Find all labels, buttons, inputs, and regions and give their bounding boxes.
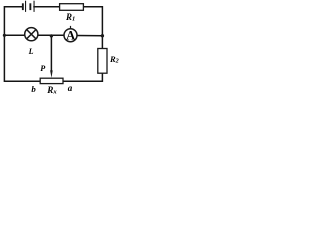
- resistor R1 body: [60, 4, 84, 11]
- junction node at left wall: [3, 34, 6, 37]
- battery cell 2 short plate (negative): [29, 3, 31, 10]
- wire R1 to top-right corner down to R2 top: [83, 7, 102, 49]
- battery cell 1 long plate (positive): [25, 1, 26, 12]
- junction node at right wall: [101, 34, 104, 37]
- rheostat Rx body: [40, 78, 63, 83]
- wire lamp row left segment: [4, 34, 24, 36]
- svg-text:L: L: [28, 47, 34, 56]
- resistor R2 body: [98, 49, 107, 74]
- slider arrowhead: [50, 70, 53, 78]
- wire battery to R1: [34, 6, 60, 8]
- battery cell 1 short plate (negative): [22, 3, 24, 10]
- wire lamp to junction to ammeter: [38, 34, 64, 36]
- svg-text:A: A: [66, 29, 75, 43]
- lamp L circle: [25, 28, 38, 41]
- svg-text:a: a: [68, 83, 73, 93]
- battery cell 2 long plate (positive): [34, 1, 35, 12]
- wire top-left from battery to left wall, left wall, bottom-left to rheostat: [4, 7, 40, 81]
- svg-text:b: b: [31, 84, 36, 94]
- wire R2 bottom to bottom-right corner to rheostat right edge: [63, 73, 102, 81]
- ammeter needle tick: [70, 26, 72, 29]
- wire ammeter to right wall: [77, 35, 103, 37]
- wire slider P arrow shaft: [50, 36, 52, 71]
- lamp L cross: [27, 30, 36, 39]
- junction node at slider tap: [50, 34, 53, 37]
- ammeter A circle: [64, 29, 77, 42]
